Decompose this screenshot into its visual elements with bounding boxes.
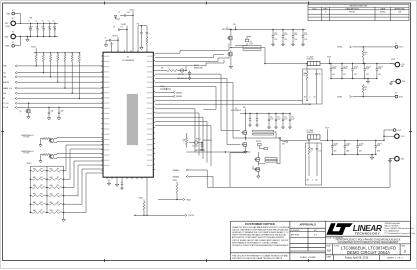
node — [371, 154, 372, 155]
svg-text:APPLICATION. COMPONENT SUBSTIT: APPLICATION. COMPONENT SUBSTITUTION AND … — [232, 236, 285, 239]
svg-text:C20: C20 — [270, 117, 273, 119]
node — [46, 179, 47, 180]
node — [375, 154, 376, 155]
svg-text:OPT: OPT — [40, 177, 43, 179]
wire — [29, 166, 31, 212]
wire — [282, 121, 284, 126]
wire — [306, 95, 308, 100]
svg-text:MMSZ5231B: MMSZ5231B — [204, 140, 212, 142]
svg-text:OPT: OPT — [57, 193, 60, 195]
svg-text:RB5: RB5 — [50, 202, 53, 204]
wire — [17, 102, 103, 104]
node — [20, 23, 21, 24]
wire — [391, 80, 396, 82]
svg-text:1000pF: 1000pF — [160, 86, 165, 88]
transistor Q6 FET — [254, 167, 259, 171]
wire — [45, 187, 49, 189]
svg-text:C13: C13 — [304, 32, 307, 34]
wire — [117, 37, 119, 52]
svg-text:C21: C21 — [277, 117, 280, 119]
U1 pin stubs — [101, 50, 155, 179]
svg-text:2.2uF: 2.2uF — [127, 12, 131, 14]
wire — [249, 120, 251, 123]
ground — [107, 182, 110, 186]
svg-text:VIN: VIN — [243, 107, 246, 109]
wire — [329, 58, 331, 63]
svg-text:+180uF: +180uF — [28, 26, 33, 28]
svg-text:INTVCC: INTVCC — [196, 138, 201, 140]
svg-text:0805: 0805 — [334, 151, 337, 153]
wire — [62, 195, 64, 197]
node — [363, 63, 364, 64]
wire — [132, 11, 134, 52]
svg-text:APP ENG: APP ENG — [291, 234, 300, 237]
svg-text:C3: C3 — [42, 21, 44, 23]
wire — [17, 76, 103, 78]
wire — [316, 75, 318, 95]
wire — [45, 212, 49, 214]
svg-text:C17: C17 — [314, 97, 317, 99]
svg-text:Q5: Q5 — [20, 111, 22, 113]
wire — [155, 99, 302, 101]
svg-text:VOUT+: VOUT+ — [399, 47, 404, 49]
wire — [235, 43, 247, 46]
svg-text:C5: C5 — [105, 37, 107, 39]
svg-text:SHEET 1 OF 1: SHEET 1 OF 1 — [387, 258, 403, 260]
wire — [64, 53, 66, 55]
ground — [268, 126, 271, 129]
ground — [57, 116, 60, 120]
node — [46, 187, 47, 188]
svg-text:VOUT: VOUT — [325, 128, 329, 130]
node — [141, 25, 142, 26]
wire — [364, 64, 366, 69]
wire — [331, 147, 333, 154]
svg-text:+1.5V: +1.5V — [401, 64, 405, 66]
resistor RB1 OPT — [49, 170, 62, 172]
wire — [48, 114, 50, 117]
node — [79, 52, 80, 53]
terminal E2 VIN — [11, 21, 16, 26]
svg-text:OPT: OPT — [57, 202, 60, 204]
wire — [146, 44, 148, 52]
svg-text:DATE: DATE — [326, 255, 331, 258]
svg-text:E1: E1 — [12, 10, 14, 12]
svg-text:GND: GND — [401, 159, 404, 161]
node — [352, 78, 353, 79]
node — [72, 93, 73, 94]
wire — [64, 145, 103, 171]
terminal E5 VOUTS+ — [395, 46, 398, 49]
svg-text:OPT: OPT — [57, 168, 60, 170]
transistor Q4 bottom FET — [242, 142, 247, 146]
svg-text:RB6: RB6 — [50, 210, 53, 212]
svg-text:RB4: RB4 — [50, 193, 53, 195]
wire — [46, 166, 48, 212]
node — [57, 82, 58, 83]
resistor RB4 OPT — [49, 195, 62, 197]
svg-text:C12: C12 — [294, 32, 297, 34]
ground — [366, 80, 369, 84]
ground — [140, 46, 143, 50]
svg-text:22uF: 22uF — [35, 26, 38, 28]
wire — [376, 70, 378, 78]
wire — [292, 30, 294, 36]
svg-text:47uF: 47uF — [377, 145, 380, 147]
diode D3 MMSZ5231B — [188, 72, 190, 74]
node — [383, 136, 384, 137]
node — [50, 52, 51, 53]
node — [330, 63, 331, 64]
wire — [155, 57, 229, 62]
wire — [108, 179, 110, 181]
svg-text:0.1uF: 0.1uF — [270, 118, 274, 120]
wire — [45, 203, 49, 205]
resistor RA4 OPT — [32, 195, 45, 197]
wire — [272, 30, 274, 36]
wire — [155, 70, 167, 72]
svg-text:1210: 1210 — [284, 39, 287, 41]
terminal E4 GNDS — [12, 44, 15, 47]
svg-text:Friday, April 08, 2016: Friday, April 08, 2016 — [345, 257, 369, 260]
wire — [160, 88, 165, 90]
DCR sense network stage2 — [306, 143, 322, 185]
svg-text:SOT-923: SOT-923 — [24, 137, 30, 139]
svg-text:0.1uF: 0.1uF — [291, 118, 295, 120]
wire — [229, 29, 306, 31]
wire — [26, 37, 28, 38]
node — [57, 52, 58, 53]
node — [43, 52, 44, 53]
svg-text:COUT7: COUT7 — [346, 143, 351, 145]
node — [329, 63, 330, 64]
svg-text:CUSTOMER NOTICE: CUSTOMER NOTICE — [245, 222, 275, 226]
node — [364, 78, 365, 79]
svg-text:R17: R17 — [304, 97, 307, 99]
node — [37, 23, 38, 24]
svg-text:47uF: 47uF — [334, 145, 337, 147]
svg-text:0805: 0805 — [359, 151, 362, 153]
wire — [357, 147, 359, 154]
svg-text:6.3V: 6.3V — [366, 74, 369, 76]
svg-text:PERFORMANCE OR RELIABILITY. CO: PERFORMANCE OR RELIABILITY. CONTACT LINE… — [232, 241, 278, 244]
ground — [201, 148, 204, 151]
node — [327, 140, 328, 141]
wire — [146, 26, 148, 33]
svg-text:RB3: RB3 — [50, 185, 53, 187]
wire — [198, 142, 202, 144]
resistor RB2 OPT — [49, 178, 62, 180]
svg-text:10pF: 10pF — [51, 111, 54, 113]
svg-text:LTC Confidential-For Customer: LTC Confidential-For Customer Use Only — [385, 232, 416, 235]
wire — [126, 14, 133, 16]
resistor RB5 OPT — [49, 203, 62, 205]
svg-text:0.1uF: 0.1uF — [277, 118, 281, 120]
node — [30, 36, 31, 37]
wire — [111, 42, 113, 52]
wire SW2 sense — [155, 83, 245, 139]
wire — [64, 173, 103, 213]
node — [302, 29, 303, 30]
svg-text:VOSNS+: VOSNS+ — [337, 47, 343, 49]
wire — [176, 182, 178, 184]
svg-text:OPT: OPT — [57, 177, 60, 179]
wire — [30, 170, 32, 172]
svg-text:DESCRIPTION: DESCRIPTION — [346, 8, 360, 10]
wire — [120, 29, 127, 31]
wire — [362, 57, 364, 64]
resistor RA2 OPT — [32, 178, 45, 180]
svg-text:N/A: N/A — [327, 248, 332, 252]
wire — [353, 96, 395, 98]
wire — [245, 109, 247, 114]
transistor Q5 FET — [254, 157, 259, 161]
svg-text:LINEAR TECHNOLOGY HAS MADE A B: LINEAR TECHNOLOGY HAS MADE A BEST EFFORT… — [232, 226, 290, 229]
node — [143, 215, 144, 216]
svg-text:C2: C2 — [35, 21, 37, 23]
wire — [189, 71, 191, 73]
wire — [225, 151, 250, 153]
node — [292, 29, 293, 30]
resistor RA5 OPT — [32, 203, 45, 205]
svg-text:6.3V: 6.3V — [343, 74, 346, 76]
svg-text:E5: E5 — [395, 43, 397, 45]
wire — [235, 26, 237, 30]
wire — [54, 157, 103, 160]
wire — [42, 62, 44, 73]
svg-text:VERIFY PROPER AND RELIABLE OPE: VERIFY PROPER AND RELIABLE OPERATION IN … — [232, 234, 286, 237]
node — [308, 140, 309, 141]
svg-text:VOUT: VOUT — [391, 59, 395, 61]
wire — [71, 62, 73, 94]
wire — [357, 140, 359, 145]
wire — [116, 18, 121, 20]
wire — [126, 26, 128, 53]
node — [332, 154, 333, 155]
wire — [30, 178, 32, 180]
svg-text:VIN: VIN — [233, 24, 236, 26]
svg-text:47uF: 47uF — [346, 145, 349, 147]
node — [63, 187, 64, 188]
node — [357, 140, 358, 141]
wire — [155, 121, 207, 162]
wire — [257, 171, 259, 174]
node — [389, 158, 390, 159]
node — [146, 215, 147, 216]
wire — [330, 70, 332, 78]
node — [245, 113, 246, 114]
svg-text:COUT5: COUT5 — [378, 66, 383, 68]
svg-text:6.3V: 6.3V — [378, 74, 381, 76]
svg-text:PROD: PROD — [349, 12, 355, 14]
svg-text:3: 3 — [404, 248, 406, 253]
wire — [155, 109, 195, 152]
wire — [17, 81, 103, 83]
wire — [138, 25, 147, 27]
node — [352, 63, 353, 64]
node — [264, 63, 265, 64]
svg-text:BSC050NE2LS: BSC050NE2LS — [231, 110, 241, 112]
svg-text:VSENSE1: VSENSE1 — [173, 176, 180, 178]
svg-text:VDD25: VDD25 — [31, 46, 36, 48]
node — [306, 100, 307, 101]
svg-text:22uF: 22uF — [53, 26, 56, 28]
node — [46, 195, 47, 196]
svg-text:APPROVED: APPROVED — [394, 7, 405, 10]
svg-text:VOUT-: VOUT- — [399, 96, 404, 98]
wire — [207, 159, 390, 188]
svg-text:LW: LW — [398, 12, 401, 14]
wire — [42, 53, 44, 55]
terminal E7 GND — [396, 79, 401, 84]
wire — [58, 114, 60, 117]
wire — [17, 92, 103, 94]
wire — [17, 65, 103, 67]
wire — [28, 103, 30, 109]
svg-text:CB1: CB1 — [250, 42, 253, 44]
ground — [389, 81, 392, 85]
svg-text:C4: C4 — [48, 21, 50, 23]
wire — [30, 212, 32, 214]
wire — [201, 146, 203, 148]
svg-text:R6B: R6B — [311, 149, 314, 151]
wire — [62, 187, 64, 189]
wire — [17, 106, 103, 108]
svg-text:TECHNOLOGY: TECHNOLOGY — [355, 232, 381, 236]
node — [309, 104, 310, 105]
wire — [120, 14, 125, 16]
svg-text:C22: C22 — [284, 117, 287, 119]
wire — [188, 177, 213, 188]
wire ITH net — [155, 87, 216, 110]
svg-text:6.3V: 6.3V — [354, 74, 357, 76]
node — [58, 107, 59, 108]
svg-text:C1: C1 — [28, 21, 30, 23]
wire — [78, 62, 80, 99]
svg-text:THIS CIRCUIT IS PROPRIETARY TO: THIS CIRCUIT IS PROPRIETARY TO LINEAR TE… — [232, 255, 288, 258]
svg-text:Q4: Q4 — [252, 167, 254, 169]
svg-text:VIN: VIN — [137, 24, 139, 26]
wire — [155, 55, 224, 58]
resistor RA6 OPT — [32, 211, 45, 213]
wire — [230, 40, 232, 46]
wire — [332, 154, 376, 156]
svg-text:C7: C7 — [119, 12, 121, 14]
net VSENSE1 — [173, 95, 175, 97]
svg-text:COUT4: COUT4 — [366, 66, 371, 68]
node — [245, 137, 246, 138]
wire — [201, 143, 203, 145]
wire — [155, 113, 199, 156]
node — [46, 204, 47, 205]
wire — [390, 158, 394, 160]
node — [306, 63, 307, 64]
wire — [276, 159, 278, 164]
wire — [64, 165, 103, 196]
svg-text:3: 3 — [325, 12, 326, 14]
wire — [302, 30, 304, 36]
svg-text:0.1uF: 0.1uF — [284, 34, 288, 36]
svg-text:OPT: OPT — [40, 202, 43, 204]
wire — [43, 30, 45, 37]
svg-text:2.2: 2.2 — [311, 151, 313, 153]
node — [72, 52, 73, 53]
wire — [362, 47, 364, 50]
wire — [375, 140, 377, 145]
node — [63, 212, 64, 213]
node — [376, 78, 377, 79]
title block — [230, 221, 410, 260]
ground — [281, 43, 284, 47]
svg-text:47uF: 47uF — [378, 68, 381, 70]
ground — [121, 187, 124, 190]
wire — [320, 139, 384, 141]
ground — [271, 43, 274, 47]
svg-text:VDD25: VDD25 — [173, 180, 178, 182]
wire — [257, 152, 259, 158]
svg-text:SCL: SCL — [3, 72, 6, 74]
wire — [247, 37, 251, 40]
node — [289, 113, 290, 114]
svg-text:L1 0.33uH: L1 0.33uH — [307, 56, 314, 58]
wire — [256, 114, 258, 119]
svg-text:744301033: 744301033 — [307, 59, 314, 61]
node — [49, 36, 50, 37]
wire — [185, 66, 187, 71]
wire — [259, 146, 264, 149]
ground — [257, 174, 260, 178]
wire — [30, 203, 32, 205]
wire — [106, 40, 110, 43]
wire — [146, 34, 148, 37]
wire — [155, 103, 310, 105]
ground — [275, 126, 278, 129]
svg-text:C5: C5 — [53, 21, 55, 23]
wire — [268, 121, 270, 126]
node — [341, 78, 342, 79]
node — [201, 142, 202, 143]
wire — [45, 178, 49, 180]
svg-text:COUT2: COUT2 — [343, 66, 348, 68]
node — [36, 52, 37, 53]
wire — [289, 121, 291, 126]
wire — [316, 95, 318, 104]
node — [332, 140, 333, 141]
svg-text:VDD33: VDD33 — [121, 24, 126, 26]
svg-text:Q3: Q3 — [235, 108, 237, 110]
svg-text:FC_CLK: FC_CLK — [3, 103, 9, 105]
svg-text:10pF: 10pF — [61, 111, 64, 113]
wire — [143, 200, 145, 202]
svg-text:VOUT: VOUT — [327, 57, 331, 59]
wire — [186, 145, 188, 148]
wire — [49, 30, 51, 37]
svg-text:INTVCC: INTVCC — [256, 141, 261, 143]
node — [30, 195, 31, 196]
svg-text:DEMO CIRCUIT 2064A: DEMO CIRCUIT 2064A — [347, 250, 390, 255]
svg-text:OPT: OPT — [57, 185, 60, 187]
svg-text:47uF: 47uF — [354, 68, 357, 70]
transistor Q2 bottom FET — [227, 52, 232, 56]
wire — [54, 138, 103, 139]
wire — [275, 114, 277, 120]
wire — [189, 142, 194, 144]
wire — [320, 63, 395, 65]
wire — [283, 141, 287, 143]
svg-text:R17: R17 — [365, 87, 368, 89]
wire — [16, 22, 58, 24]
ground — [289, 126, 292, 129]
